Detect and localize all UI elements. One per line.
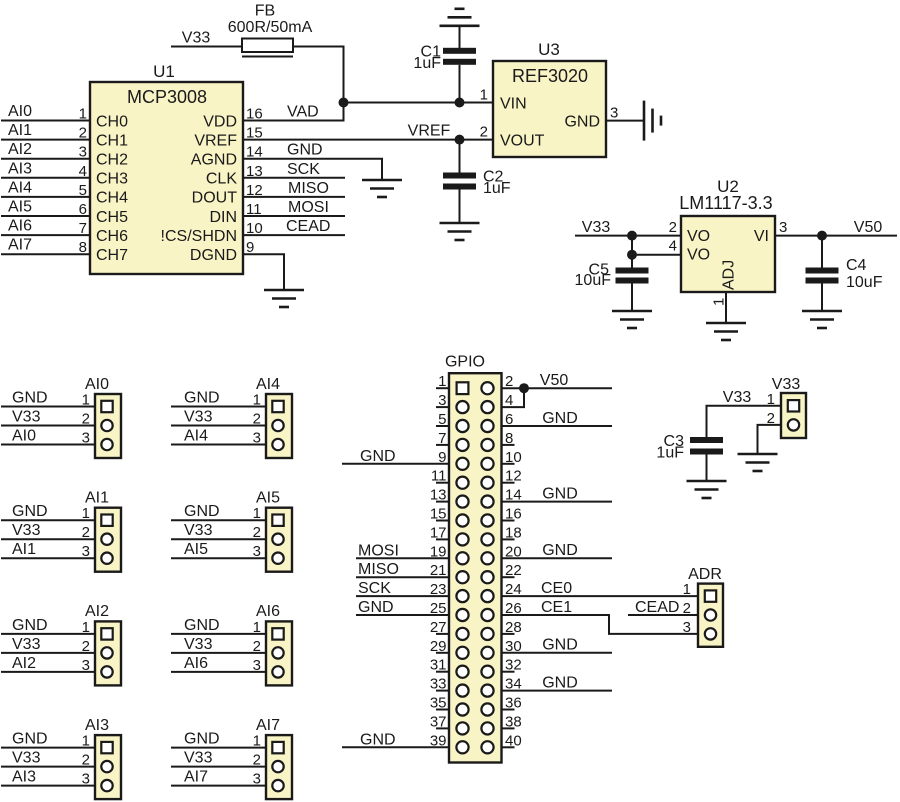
AI0 pin 2 pad (101, 420, 112, 431)
svg-text:CH3: CH3 (96, 171, 128, 188)
svg-text:AI0: AI0 (8, 103, 32, 120)
svg-text:VO: VO (687, 246, 710, 263)
wire VREF node to C2 (459, 140, 461, 173)
GPIO pin 24 pad (481, 590, 493, 602)
connector AI3 body (85, 717, 121, 799)
wire C5 to ground (631, 284, 633, 312)
connector AI7 body (256, 717, 292, 799)
wire MISO from U1 pin12 (243, 196, 345, 198)
wire V33 to AI1 pin 2 (1, 538, 95, 540)
wire V33 to AI3 pin 2 (1, 766, 95, 768)
wire U2 VI pin3 to V50 (775, 235, 897, 237)
svg-text:10uF: 10uF (575, 272, 612, 289)
svg-text:GND: GND (12, 617, 48, 634)
svg-text:ADJ: ADJ (721, 260, 738, 290)
svg-text:CEAD: CEAD (286, 218, 330, 235)
GPIO pin 26 pad (481, 609, 493, 621)
svg-text:MOSI: MOSI (288, 199, 329, 216)
svg-text:CH7: CH7 (96, 247, 128, 264)
svg-text:AI4: AI4 (8, 179, 32, 196)
svg-text:!CS/SHDN: !CS/SHDN (161, 228, 237, 245)
GPIO pin 40 pad (481, 741, 493, 753)
svg-text:VAD: VAD (287, 104, 319, 121)
wire C3 to ground (706, 455, 708, 482)
wire AI6 to U1 CH6 pin 7 (1, 234, 90, 236)
AI3 pin 3 pad (101, 780, 112, 791)
ADR pin 1 square pad (705, 590, 716, 601)
svg-text:AGND: AGND (191, 152, 237, 169)
svg-text:VOUT: VOUT (500, 132, 545, 149)
GPIO pin 34 pad (481, 685, 493, 697)
wire rail to C1 (459, 26, 461, 48)
stub wire GPIO pin 18 (502, 538, 515, 540)
AI1 pin 2 pad (101, 534, 112, 545)
ground below C5 (612, 311, 652, 328)
wire CE1 GPIO pin 26 to ADR pin 3 (502, 615, 699, 634)
svg-text:V33: V33 (12, 636, 41, 653)
GPIO pin 33 pad (456, 685, 468, 697)
connector ADR body (688, 566, 723, 647)
AI5 pin 3 pad (272, 553, 283, 564)
wire CEAD from U1 pin10 (243, 234, 345, 236)
wire AI5 to U1 CH5 pin 6 (1, 215, 90, 217)
svg-text:V33: V33 (723, 389, 752, 406)
svg-text:GND: GND (12, 503, 48, 520)
connector V33 body (772, 376, 806, 438)
connector AI4 body (256, 376, 292, 458)
AI4 pin 3 pad (272, 439, 283, 450)
AI5 pin 2 pad (272, 534, 283, 545)
capacitor C2 1uF (443, 168, 511, 197)
svg-text:CH5: CH5 (96, 209, 128, 226)
wire GND to AI5 pin 1 (171, 519, 266, 521)
wire V33 connector pin 2 to ground (758, 425, 782, 454)
AI6 pin 2 pad (272, 647, 283, 658)
wire VAD node to U3 VIN (344, 102, 494, 104)
GPIO pin 15 pad (456, 514, 468, 526)
wire GND to AI4 pin 1 (171, 406, 266, 408)
GPIO pin 1 square pad (457, 382, 469, 394)
wire GPIO pin 20 to GND (502, 557, 613, 559)
svg-text:MISO: MISO (288, 180, 329, 197)
svg-text:AI2: AI2 (8, 141, 32, 158)
ground below U2 ADJ (706, 323, 746, 340)
stub wire GPIO pin 22 (502, 576, 515, 578)
GPIO pin 21 pad (456, 571, 468, 583)
GPIO pin 20 pad (481, 552, 493, 564)
svg-text:1uF: 1uF (413, 55, 441, 72)
wire AI7 to U1 CH7 pin 8 (1, 253, 90, 255)
wire junction down to U2 VO pin4 (632, 236, 681, 255)
connector AI6 body (256, 603, 292, 685)
wire V33 to AI2 pin 2 (1, 652, 95, 654)
wire AI0 to U1 CH0 pin 1 (1, 120, 90, 122)
capacitor C1 1uF (413, 43, 476, 72)
GPIO pin 18 pad (481, 533, 493, 545)
wire U1 VREF pin15 to U3 VOUT (243, 139, 493, 141)
wire GPIO pin 30 to GND (502, 652, 613, 654)
stub wire GPIO pin 29 (436, 652, 449, 654)
svg-text:CE0: CE0 (541, 580, 572, 597)
AI2 pin 2 pad (101, 647, 112, 658)
GPIO pin 31 pad (456, 666, 468, 678)
AI0 pin 3 pad (101, 439, 112, 450)
stub wire GPIO pin 17 (436, 538, 449, 540)
connector GPIO 2x20 header body (445, 354, 502, 763)
wire GPIO pin 6 to GND (502, 425, 613, 427)
svg-text:MOSI: MOSI (358, 542, 399, 559)
svg-text:ADR: ADR (688, 566, 722, 583)
svg-text:GND: GND (184, 390, 220, 407)
stub wire GPIO pin 16 (502, 520, 515, 522)
svg-text:CH0: CH0 (96, 113, 128, 130)
svg-text:600R/50mA: 600R/50mA (228, 19, 313, 36)
junction node V33 at pin2 (627, 231, 637, 241)
GPIO pin 28 pad (481, 628, 493, 640)
stub wire GPIO pin 32 (502, 671, 515, 673)
svg-text:GND: GND (184, 617, 220, 634)
capacitor C5 10uF (575, 261, 649, 289)
wire U1 VDD pin16 to VAD node (243, 103, 344, 121)
GPIO pin 19 pad (456, 552, 468, 564)
svg-text:CH4: CH4 (96, 190, 128, 207)
stub wire GPIO pin 12 (502, 482, 515, 484)
wire MOSI from U1 pin11 (243, 215, 345, 217)
svg-text:DOUT: DOUT (192, 190, 238, 207)
GPIO pin 38 pad (481, 722, 493, 734)
U1 right pin numbers 16-9 (246, 106, 263, 257)
svg-text:CLK: CLK (206, 171, 237, 188)
stub wire GPIO pin 31 (436, 671, 449, 673)
wire U2 ADJ pin1 to ground (725, 292, 727, 323)
GPIO pin 16 pad (481, 514, 493, 526)
svg-text:AI7: AI7 (184, 769, 208, 786)
stub wire GPIO pin 13 (436, 501, 449, 503)
ground below C2 (440, 223, 480, 240)
stub wire GPIO pin 10 (502, 463, 515, 465)
svg-text:AI4: AI4 (184, 428, 208, 445)
AI1 pin 3 pad (101, 553, 112, 564)
junction node VAD at FB (339, 98, 349, 108)
junction node VAD at C1 (455, 98, 465, 108)
wire GND to GPIO pin 9 (342, 463, 449, 465)
GPIO pin 37 pad (456, 722, 468, 734)
AI6 pin 1 square pad (272, 628, 283, 639)
junction node at pin4 (627, 250, 637, 260)
AI3 pin 2 pad (101, 761, 112, 772)
ground at V33 connector pin 2 (738, 454, 778, 471)
GPIO pin 10 pad (481, 458, 493, 470)
svg-text:GND: GND (542, 410, 578, 427)
svg-text:AI5: AI5 (184, 541, 208, 558)
svg-text:1: 1 (683, 581, 691, 598)
svg-text:1: 1 (711, 298, 728, 306)
svg-text:AI2: AI2 (85, 603, 109, 620)
svg-text:GND: GND (360, 731, 396, 748)
stub wire GPIO pin 1 (436, 387, 449, 389)
wire V33 to AI5 pin 2 (171, 538, 266, 540)
stub wire GPIO pin 37 (436, 727, 449, 729)
svg-text:AI0: AI0 (12, 428, 36, 445)
svg-text:3: 3 (779, 219, 787, 236)
GPIO pin 35 pad (456, 703, 468, 715)
wire GND to GPIO pin 39 (342, 746, 449, 748)
svg-text:FB: FB (255, 3, 275, 20)
junction node V50 at pin 2 (519, 383, 529, 393)
svg-text:V50: V50 (540, 372, 569, 389)
ground at U3 pin3 (644, 101, 661, 141)
svg-text:3: 3 (683, 619, 691, 636)
GPIO pin 13 pad (456, 496, 468, 508)
wire MISO to GPIO pin 21 (356, 576, 449, 578)
svg-text:GND: GND (12, 390, 48, 407)
stub wire GPIO pin 7 (436, 444, 449, 446)
svg-text:V33: V33 (582, 219, 611, 236)
stub wire GPIO pin 35 (436, 709, 449, 711)
wire AI1 to AI1 pin 3 (1, 557, 95, 559)
svg-text:VREF: VREF (408, 123, 451, 140)
wire node to C4 (821, 236, 823, 268)
wire V33 to AI6 pin 2 (171, 652, 266, 654)
wire GND to AI1 pin 1 (1, 519, 95, 521)
svg-text:VO: VO (687, 228, 710, 245)
stub wire GPIO pin 3 (436, 406, 449, 408)
ferrite bead FB 600R/50mA (228, 3, 313, 57)
GPIO pin 22 pad (481, 571, 493, 583)
wire U3 GND pin3 to ground (606, 120, 644, 122)
svg-text:U1: U1 (153, 62, 175, 81)
stub wire GPIO pin 8 (502, 444, 515, 446)
wire SCK to GPIO pin 23 (356, 595, 449, 597)
ADR pin 2 pad (705, 609, 716, 620)
GPIO pin 5 pad (456, 420, 468, 432)
svg-text:2: 2 (480, 124, 488, 141)
GPIO pin 12 pad (481, 477, 493, 489)
wire CE0 GPIO pin 24 to ADR pin 1 (502, 595, 699, 597)
wire AI2 to AI2 pin 3 (1, 671, 95, 673)
wire FB to VAD node (293, 47, 344, 103)
AI6 pin 3 pad (272, 666, 283, 677)
svg-text:VREF: VREF (194, 132, 237, 149)
svg-text:CH1: CH1 (96, 132, 128, 149)
svg-text:AI5: AI5 (256, 490, 280, 507)
wire AI7 to AI7 pin 3 (171, 785, 266, 787)
svg-text:REF3020: REF3020 (512, 66, 588, 86)
svg-text:AI1: AI1 (12, 541, 36, 558)
svg-text:GND: GND (542, 674, 578, 691)
svg-text:1uF: 1uF (483, 180, 511, 197)
stub wire GPIO pin 33 (436, 690, 449, 692)
wire GND to AI7 pin 1 (171, 747, 266, 749)
GPIO pin 4 pad (481, 401, 493, 413)
GPIO pin 23 pad (456, 590, 468, 602)
svg-text:MCP3008: MCP3008 (127, 87, 207, 107)
svg-text:GND: GND (184, 731, 220, 748)
wire GPIO pin 34 to GND (502, 690, 613, 692)
GPIO pin 9 pad (456, 458, 468, 470)
wire C2 to ground (459, 190, 461, 224)
wire AI4 to U1 CH4 pin 5 (1, 196, 90, 198)
junction node VREF at C2 (455, 135, 465, 145)
GPIO pin 30 pad (481, 647, 493, 659)
wire C4 to ground (821, 284, 823, 312)
svg-text:V33: V33 (184, 750, 213, 767)
wire V33 to connector pin 1 and C3 (707, 406, 782, 437)
AI7 pin 3 pad (272, 780, 283, 791)
AI4 pin 2 pad (272, 420, 283, 431)
svg-text:AI7: AI7 (256, 717, 280, 734)
svg-text:1: 1 (480, 87, 488, 104)
svg-text:SCK: SCK (287, 161, 320, 178)
IC U2 LM1117-3.3 body (679, 177, 775, 292)
svg-text:2: 2 (669, 219, 677, 236)
AI7 pin 2 pad (272, 761, 283, 772)
wire AI3 to AI3 pin 3 (1, 785, 95, 787)
svg-text:VDD: VDD (203, 113, 237, 130)
stub wire GPIO pin 5 (436, 425, 449, 427)
wire AI3 to U1 CH3 pin 4 (1, 177, 90, 179)
stub wire GPIO pin 28 (502, 633, 515, 635)
IC U1 MCP3008 body (90, 62, 243, 274)
GPIO pin 32 pad (481, 666, 493, 678)
GPIO pin 3 pad (456, 401, 468, 413)
svg-text:V33: V33 (184, 636, 213, 653)
wire GND to AI0 pin 1 (1, 406, 95, 408)
svg-text:GPIO: GPIO (445, 354, 485, 371)
V33 connector pin 2 pad (788, 419, 799, 430)
svg-text:AI3: AI3 (85, 717, 109, 734)
U1 left pin numbers 1-8 (79, 106, 87, 257)
svg-text:CEAD: CEAD (635, 599, 679, 616)
svg-text:GND: GND (358, 599, 394, 616)
svg-text:GND: GND (360, 448, 396, 465)
wire GPIO pin 2 to V50 (502, 387, 613, 389)
wire AI5 to AI5 pin 3 (171, 557, 266, 559)
V33 connector pin 1 square pad (788, 400, 799, 411)
svg-text:V33: V33 (184, 409, 213, 426)
wire junction to GPIO pin 4 (502, 388, 525, 407)
svg-text:AI1: AI1 (85, 490, 109, 507)
svg-text:V33: V33 (12, 750, 41, 767)
svg-text:AI3: AI3 (12, 769, 36, 786)
stub wire GPIO pin 36 (502, 709, 515, 711)
GPIO pin 7 pad (456, 439, 468, 451)
wire AI0 to AI0 pin 3 (1, 444, 95, 446)
power rail symbol (inverted ground) above C1 (440, 9, 480, 26)
svg-text:SCK: SCK (358, 580, 391, 597)
svg-text:DIN: DIN (209, 209, 237, 226)
stub wire GPIO pin 38 (502, 727, 515, 729)
svg-text:MISO: MISO (358, 561, 399, 578)
svg-text:V33: V33 (184, 522, 213, 539)
wire GND to GPIO pin 25 (356, 614, 449, 616)
GPIO pin 11 pad (456, 477, 468, 489)
capacitor C4 10uF (806, 257, 883, 291)
stub wire GPIO pin 27 (436, 633, 449, 635)
wire V33 to AI7 pin 2 (171, 766, 266, 768)
svg-text:V33: V33 (12, 409, 41, 426)
svg-text:CH2: CH2 (96, 152, 128, 169)
wire V33 to U2 VO pin2 (575, 235, 681, 237)
svg-text:GND: GND (287, 142, 323, 159)
svg-text:10uF: 10uF (846, 274, 883, 291)
svg-text:1uF: 1uF (656, 444, 684, 461)
svg-text:GND: GND (564, 113, 600, 130)
svg-text:GND: GND (542, 542, 578, 559)
svg-text:AI7: AI7 (8, 237, 32, 254)
svg-text:4: 4 (669, 238, 677, 255)
svg-text:V33: V33 (182, 30, 211, 47)
GPIO pin 8 pad (481, 439, 493, 451)
svg-text:4: 4 (505, 392, 513, 409)
wire C1 to VAD node (459, 65, 461, 103)
wire U1 AGND pin14 to ground (243, 159, 382, 180)
wire AI2 to U1 CH2 pin 3 (1, 158, 90, 160)
AI3 pin 1 square pad (101, 742, 112, 753)
connector AI1 body (85, 490, 121, 572)
stub wire GPIO pin 15 (436, 520, 449, 522)
stub wire GPIO pin 11 (436, 482, 449, 484)
ADR pin 3 pad (705, 628, 716, 639)
AI2 pin 3 pad (101, 666, 112, 677)
wire GND to AI2 pin 1 (1, 633, 95, 635)
GPIO pin 6 pad (481, 420, 493, 432)
GPIO pin 25 pad (456, 609, 468, 621)
wire V33 to AI0 pin 2 (1, 425, 95, 427)
wire U1 DGND pin9 to ground (243, 254, 284, 290)
GPIO pin 27 pad (456, 628, 468, 640)
svg-text:VI: VI (754, 228, 769, 245)
wire CEAD to ADR pin 2 (628, 614, 698, 616)
svg-text:AI6: AI6 (256, 603, 280, 620)
svg-text:CH6: CH6 (96, 228, 128, 245)
svg-text:U3: U3 (538, 40, 560, 59)
GPIO pin 14 pad (481, 496, 493, 508)
ground at U1 DGND (264, 290, 304, 307)
wire MOSI to GPIO pin 19 (356, 557, 449, 559)
GPIO pin 29 pad (456, 647, 468, 659)
svg-text:V33: V33 (772, 376, 801, 393)
svg-text:V33: V33 (12, 522, 41, 539)
svg-text:AI0: AI0 (85, 376, 109, 393)
wire node to C5 (631, 255, 633, 268)
svg-text:GND: GND (184, 503, 220, 520)
wire AI1 to U1 CH1 pin 2 (1, 139, 90, 141)
AI1 pin 1 square pad (101, 515, 112, 526)
wire SCK from U1 pin13 (243, 177, 345, 179)
svg-text:V50: V50 (854, 219, 883, 236)
svg-text:AI4: AI4 (256, 376, 280, 393)
svg-text:GND: GND (542, 637, 578, 654)
svg-text:C4: C4 (846, 257, 867, 274)
svg-text:AI1: AI1 (8, 122, 32, 139)
svg-text:VIN: VIN (500, 95, 527, 112)
svg-text:AI5: AI5 (8, 199, 32, 216)
wire AI6 to AI6 pin 3 (171, 671, 266, 673)
svg-text:DGND: DGND (190, 247, 237, 264)
AI4 pin 1 square pad (272, 401, 283, 412)
GPIO pin 2 pad (481, 382, 493, 394)
svg-text:3: 3 (610, 105, 618, 122)
wire V33 to AI4 pin 2 (171, 425, 266, 427)
svg-text:LM1117-3.3: LM1117-3.3 (679, 193, 772, 213)
IC U3 REF3020 body (493, 40, 606, 157)
capacitor C3 1uF (656, 433, 723, 462)
svg-text:AI2: AI2 (12, 655, 36, 672)
svg-text:GND: GND (542, 485, 578, 502)
ground at U1 AGND (362, 180, 402, 197)
GPIO pin 36 pad (481, 703, 493, 715)
